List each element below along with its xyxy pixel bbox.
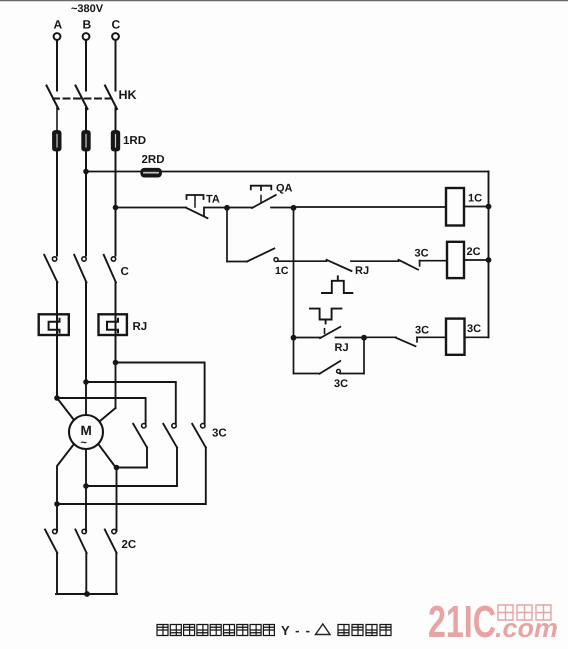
wire coil 1C to bus bbox=[464, 206, 489, 208]
node B control tap bbox=[83, 169, 89, 175]
wire coil 2C to bus bbox=[464, 259, 489, 261]
thermal contact RJ (NC) in 2C branch bbox=[327, 260, 399, 271]
wire holding branch horizontal bbox=[227, 261, 247, 263]
wire B terminal to switch bbox=[85, 40, 87, 91]
wire motor lead top-right bbox=[100, 408, 116, 421]
main contact 1C phase C bbox=[104, 255, 116, 283]
knife switch HK pole B bbox=[76, 86, 88, 110]
svg-text:C: C bbox=[121, 266, 129, 278]
holding contact 3C (NO) bbox=[320, 338, 365, 374]
delta contact 3C-2 bbox=[86, 424, 177, 487]
svg-text:3C: 3C bbox=[415, 248, 429, 260]
thermal relay RJ heater phase C bbox=[99, 314, 127, 335]
wire A heater to motor node bbox=[56, 335, 58, 398]
wire motor lead bottom-middle bbox=[85, 449, 87, 531]
thermal contact RJ (NO) in 3C branch bbox=[294, 327, 365, 338]
main contact 1C phase A bbox=[44, 255, 57, 283]
wire C fuse to main contact bbox=[115, 151, 117, 256]
wire A branch to contact 3C-1 bbox=[57, 398, 146, 423]
knife switch HK linkage dashed bbox=[53, 98, 116, 100]
node C delta branch bbox=[113, 360, 119, 366]
wire A contact to heater bbox=[56, 282, 58, 315]
svg-text:RJ: RJ bbox=[133, 321, 148, 333]
svg-text:1C: 1C bbox=[468, 193, 482, 205]
main contact 1C phase B bbox=[74, 255, 86, 283]
svg-text:3C: 3C bbox=[467, 323, 481, 335]
interlock contact 3C (NC) before coil 2C bbox=[399, 260, 448, 270]
wire holding branch down bbox=[226, 208, 228, 262]
coil 1C bbox=[446, 188, 464, 226]
caption: 用热继电器做电动机 Y--△ 节电转换 (fake CJK glyphs) bbox=[157, 625, 391, 636]
logo dianziwang (fake CJK outline glyphs) bbox=[498, 605, 551, 620]
svg-text:3C: 3C bbox=[415, 325, 429, 337]
svg-text:RJ: RJ bbox=[335, 342, 349, 354]
star contact 2C phase B bbox=[75, 529, 86, 594]
node A delta branch bbox=[54, 395, 60, 401]
svg-text:~: ~ bbox=[81, 437, 88, 449]
pushbutton TA (stop, NC) bbox=[186, 195, 227, 218]
fuse 2RD bbox=[141, 169, 161, 177]
node C control tap bbox=[113, 205, 119, 211]
wire motor lead top-left bbox=[57, 398, 74, 420]
wire C contact to heater bbox=[115, 282, 117, 315]
svg-text:A: A bbox=[54, 18, 63, 32]
wire C heater to branch node bbox=[115, 335, 117, 363]
knife switch HK pole A bbox=[47, 86, 59, 110]
wire C branch to contact 3C-3 bbox=[116, 363, 205, 424]
svg-text:~380V: ~380V bbox=[71, 3, 104, 15]
coil 2C bbox=[447, 242, 464, 278]
terminal B bbox=[83, 33, 90, 40]
wire 3C holding branch bottom bbox=[294, 373, 320, 375]
node motor bottom-left / 3C-3 bbox=[54, 501, 60, 507]
wire C switch to fuse bbox=[115, 108, 117, 132]
wire C down to motor lead bbox=[115, 363, 117, 409]
wire QA node vertical down bbox=[293, 208, 295, 338]
fuse 1RD phase B bbox=[82, 131, 90, 151]
terminal A bbox=[54, 33, 61, 40]
svg-text:TA: TA bbox=[206, 194, 220, 206]
motor M bbox=[69, 415, 103, 449]
wire QA node to coil 1C bbox=[294, 206, 447, 208]
wire C terminal to switch bbox=[115, 40, 117, 91]
node after TA bbox=[224, 205, 230, 211]
pushbutton QA (start, NO) bbox=[227, 186, 294, 208]
wire motor lead bottom-right bbox=[99, 445, 117, 531]
node RJ branch split bbox=[291, 335, 297, 341]
fuse 1RD phase C bbox=[112, 131, 120, 151]
svg-text:B: B bbox=[83, 18, 92, 32]
node bus 1C bbox=[486, 204, 492, 210]
svg-text:RJ: RJ bbox=[355, 265, 369, 277]
svg-text:C: C bbox=[112, 18, 121, 32]
node motor bottom-right / 3C-1 bbox=[114, 465, 120, 471]
delta contact 3C-1 bbox=[117, 424, 148, 468]
RJ actuator symbol (notch down) bbox=[310, 309, 341, 324]
node bus 2C bbox=[486, 257, 492, 263]
node B delta branch bbox=[83, 379, 89, 385]
wire motor lead top-middle bbox=[85, 382, 87, 415]
svg-text:21IC: 21IC bbox=[428, 596, 496, 647]
wire A fuse to main contact bbox=[56, 151, 58, 256]
svg-text:2C: 2C bbox=[467, 246, 481, 258]
wire 3C holding branch down bbox=[293, 338, 295, 374]
star contact 2C phase C bbox=[105, 529, 117, 594]
wire right bus bbox=[488, 172, 490, 338]
wire B branch to contact 3C-2 bbox=[86, 382, 176, 423]
svg-text:2C: 2C bbox=[122, 539, 137, 551]
interlock contact 3C (NC) before coil 3C bbox=[396, 337, 446, 346]
svg-text:QA: QA bbox=[276, 183, 293, 195]
node star point bbox=[84, 591, 90, 597]
top scan edge line bbox=[0, 0, 568, 2]
RJ heater actuator symbol (bump up) bbox=[322, 276, 352, 293]
terminal C bbox=[112, 33, 119, 40]
wire star point bbox=[56, 593, 117, 595]
svg-text:3C: 3C bbox=[334, 378, 348, 390]
svg-text:3C: 3C bbox=[212, 428, 227, 440]
svg-text:1RD: 1RD bbox=[123, 135, 146, 147]
wire B switch to fuse bbox=[85, 108, 87, 132]
thermal relay RJ heater phase A bbox=[39, 314, 69, 335]
svg-text:1C: 1C bbox=[275, 265, 289, 277]
fuse 1RD phase A bbox=[53, 131, 61, 151]
star contact 2C phase A bbox=[45, 529, 57, 594]
knife switch HK pole C bbox=[105, 86, 117, 110]
node motor bottom-middle / 3C-2 bbox=[83, 483, 89, 489]
wire B contact down bbox=[85, 282, 87, 382]
wire coil 3C to bus bbox=[465, 336, 489, 338]
holding contact 1C (NO) bbox=[247, 249, 327, 262]
wire A terminal to switch bbox=[56, 40, 58, 91]
svg-text:Y--: Y-- bbox=[281, 623, 310, 638]
svg-text:M: M bbox=[81, 423, 92, 438]
node 3C holding join bbox=[361, 335, 367, 341]
coil 3C bbox=[446, 319, 465, 355]
svg-text:2RD: 2RD bbox=[142, 154, 165, 166]
wire B fuse to main contact bbox=[85, 151, 87, 256]
node after QA bbox=[291, 205, 297, 211]
wire motor lead bottom-left bbox=[57, 444, 74, 531]
wire control top line bbox=[86, 171, 489, 173]
delta contact 3C-3 bbox=[57, 424, 206, 505]
svg-text:HK: HK bbox=[119, 88, 137, 102]
wire control line C to TA bbox=[116, 207, 187, 209]
wire A switch to fuse bbox=[56, 108, 58, 132]
svg-text:.com: .com bbox=[495, 613, 558, 643]
wire to 3C interlock bbox=[364, 336, 396, 338]
